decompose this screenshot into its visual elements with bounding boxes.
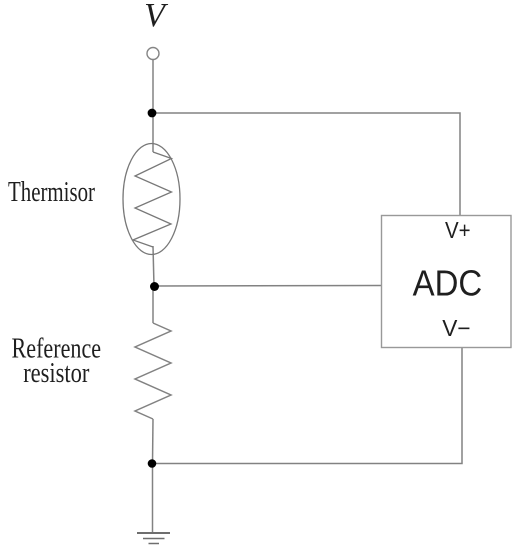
svg-text:V: V xyxy=(144,0,169,34)
svg-text:V−: V− xyxy=(442,315,470,341)
svg-text:resistor: resistor xyxy=(23,358,90,389)
svg-text:Thermisor: Thermisor xyxy=(8,177,95,208)
svg-text:V+: V+ xyxy=(445,217,471,243)
svg-text:ADC: ADC xyxy=(413,263,483,304)
